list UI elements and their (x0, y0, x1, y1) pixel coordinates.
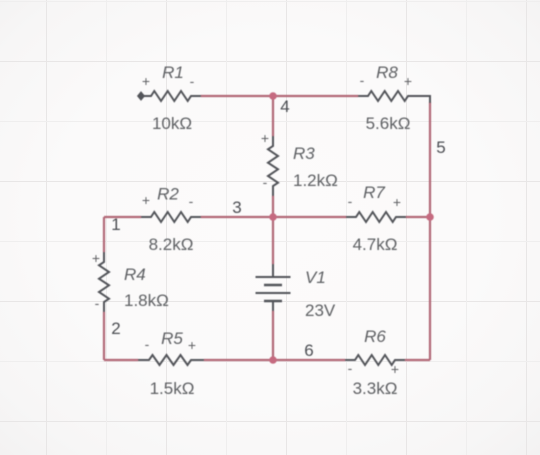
svg-text:-: - (348, 360, 353, 376)
svg-text:-: - (360, 72, 365, 88)
svg-text:10kΩ: 10kΩ (152, 114, 192, 133)
wire: node 3 down to V1 (272, 217, 274, 264)
svg-text:1.8kΩ: 1.8kΩ (124, 291, 169, 310)
svg-text:+: + (261, 130, 269, 146)
svg-text:+: + (404, 73, 412, 89)
wire bottom: node 6 to R6 (273, 359, 345, 361)
junction node 4 (269, 92, 277, 100)
svg-text:R3: R3 (293, 144, 315, 163)
svg-text:-: - (189, 193, 194, 209)
svg-text:-: - (95, 295, 100, 311)
svg-text:6: 6 (304, 341, 313, 360)
svg-text:+: + (393, 194, 401, 210)
resistor R8 (358, 91, 430, 103)
svg-text:2: 2 (111, 319, 120, 338)
svg-text:-: - (145, 336, 150, 352)
terminal pin of R1 (138, 92, 145, 100)
svg-text:3.3kΩ: 3.3kΩ (353, 379, 398, 398)
wire top: R1 to node 4 (201, 95, 273, 97)
svg-text:R6: R6 (364, 327, 386, 346)
junction node 5 rail (426, 213, 434, 221)
resistor R6 (345, 355, 405, 365)
wire top: node 4 to R8 (273, 95, 358, 97)
resistor R1 (141, 91, 201, 101)
svg-text:1.2kΩ: 1.2kΩ (293, 171, 338, 190)
svg-text:1.5kΩ: 1.5kΩ (150, 379, 195, 398)
resistor R2 (141, 212, 201, 222)
svg-text:3: 3 (232, 198, 241, 217)
svg-text:V1: V1 (305, 268, 326, 287)
svg-text:+: + (92, 250, 100, 266)
svg-text:4: 4 (280, 97, 289, 116)
wire left rail: node 1 down to R4 (103, 217, 105, 252)
svg-text:5: 5 (436, 138, 445, 157)
svg-text:-: - (190, 73, 195, 89)
wire top-right corner to right rail (429, 102, 431, 217)
svg-text:1: 1 (111, 215, 120, 234)
wire middle: R7 to right rail (406, 216, 430, 218)
svg-text:R1: R1 (162, 63, 184, 82)
wire middle: node 3 to R7 (273, 216, 346, 218)
wire right rail: node 5 segment down (429, 217, 431, 360)
svg-text:R7: R7 (363, 183, 385, 202)
svg-text:+: + (142, 73, 150, 89)
svg-text:+: + (142, 192, 150, 208)
svg-text:-: - (348, 193, 353, 209)
wire bottom: R6 to right corner (405, 359, 430, 361)
svg-text:+: + (188, 337, 196, 353)
wire: R3 to node 3 (272, 196, 274, 217)
svg-text:R4: R4 (124, 265, 146, 284)
svg-text:R8: R8 (376, 63, 398, 82)
resistor R5 (138, 355, 204, 365)
wire middle: left corner to R2 (104, 216, 141, 218)
wire middle: R2 to node 3 (201, 216, 273, 218)
wire left rail: R4 down to node 2 corner (103, 312, 105, 360)
svg-text:R5: R5 (161, 329, 183, 348)
battery V1 (256, 264, 291, 311)
svg-text:+: + (391, 361, 399, 377)
junction node 6 (269, 356, 277, 364)
wire bottom: corner to R5 (104, 359, 138, 361)
svg-text:-: - (263, 174, 268, 190)
resistor R3 (vertical) (268, 136, 278, 196)
wire bottom: R5 to node 6 (204, 359, 273, 361)
svg-text:23V: 23V (305, 301, 336, 320)
svg-text:4.7kΩ: 4.7kΩ (353, 235, 398, 254)
svg-text:8.2kΩ: 8.2kΩ (149, 235, 194, 254)
wire: node 4 down to R3 (272, 96, 274, 136)
wire: V1 down to node 6 (272, 311, 274, 360)
resistor R4 (vertical) (99, 252, 109, 312)
svg-text:5.6kΩ: 5.6kΩ (366, 114, 411, 133)
junction node 3 (269, 213, 277, 221)
svg-text:R2: R2 (157, 185, 179, 204)
resistor R7 (346, 212, 406, 222)
